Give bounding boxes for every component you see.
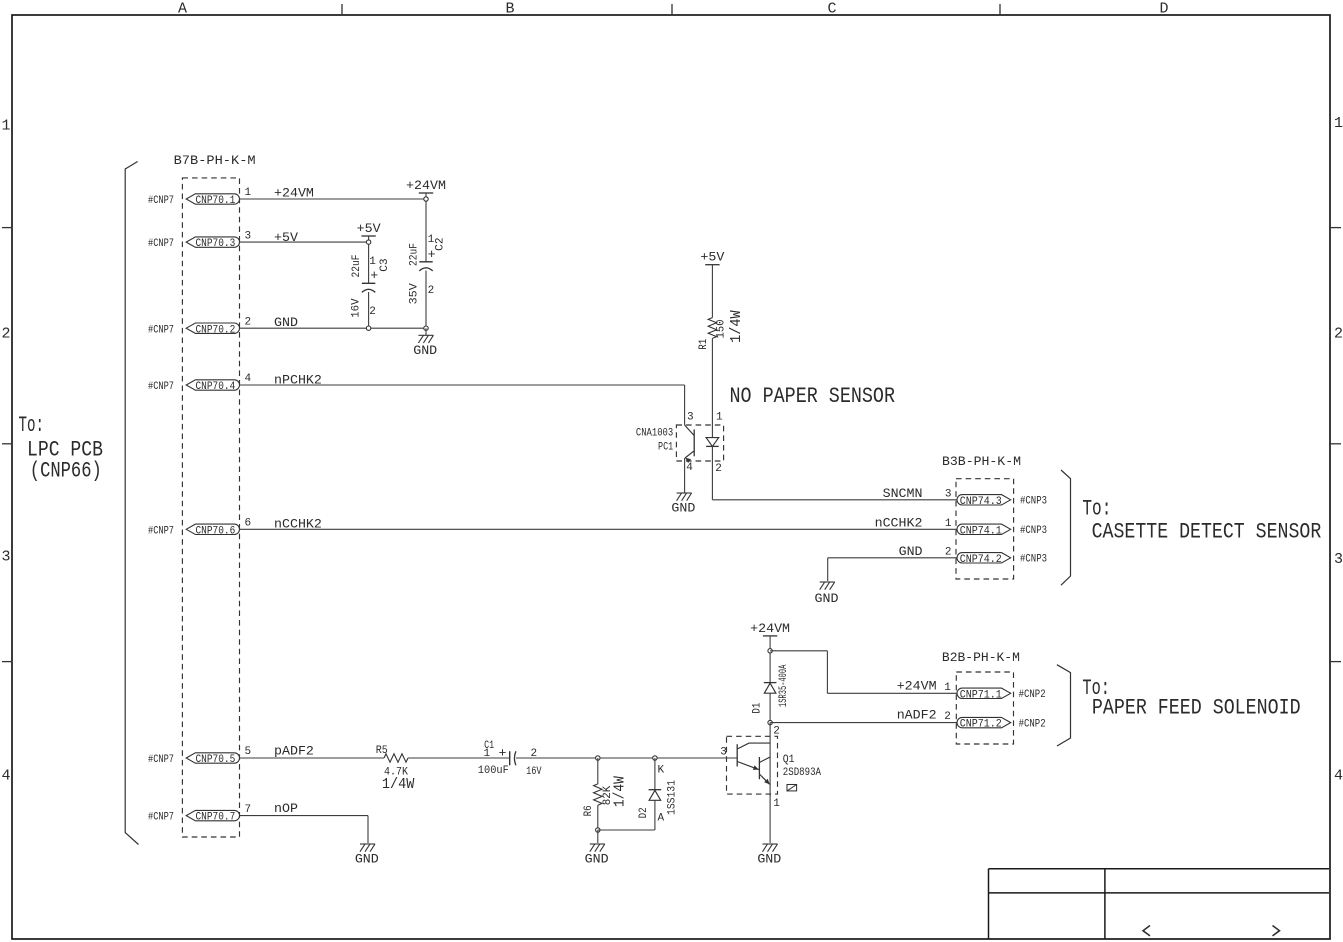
svg-text:4: 4 xyxy=(1334,768,1343,785)
svg-text:CNP70.3: CNP70.3 xyxy=(196,238,236,250)
svg-text:3: 3 xyxy=(1334,551,1343,568)
svg-text:B3B-PH-K-M: B3B-PH-K-M xyxy=(942,454,1021,469)
svg-text:C: C xyxy=(827,1,836,18)
svg-text:A: A xyxy=(178,1,187,18)
svg-text:1: 1 xyxy=(945,518,952,530)
svg-text:2: 2 xyxy=(2,326,11,343)
svg-text:6: 6 xyxy=(245,518,252,530)
svg-text:16V: 16V xyxy=(350,298,362,318)
svg-text:CNP70.6: CNP70.6 xyxy=(196,525,236,537)
svg-text:1SR35-400A: 1SR35-400A xyxy=(778,664,790,707)
svg-text:1SS131: 1SS131 xyxy=(666,780,678,815)
svg-text:CNP71.1: CNP71.1 xyxy=(960,689,1002,701)
svg-text:2: 2 xyxy=(245,316,252,328)
svg-text:R1: R1 xyxy=(698,338,710,349)
svg-text:B7B-PH-K-M: B7B-PH-K-M xyxy=(174,153,256,168)
svg-text:1: 1 xyxy=(369,256,376,268)
svg-text:22uF: 22uF xyxy=(409,243,421,266)
svg-text:#CNP7: #CNP7 xyxy=(148,381,174,393)
svg-text:+24VM: +24VM xyxy=(274,186,314,201)
svg-text:#CNP3: #CNP3 xyxy=(1020,525,1047,537)
svg-text:CNA1003: CNA1003 xyxy=(636,428,673,440)
svg-text:D: D xyxy=(1159,1,1168,18)
svg-text:2: 2 xyxy=(944,711,951,723)
svg-text:D1: D1 xyxy=(751,702,763,713)
svg-text:150: 150 xyxy=(715,319,727,338)
svg-text:(CNP66): (CNP66) xyxy=(30,459,102,484)
svg-text:3: 3 xyxy=(720,747,727,759)
svg-text:1/4W: 1/4W xyxy=(612,776,629,807)
svg-text:4: 4 xyxy=(245,373,252,385)
svg-text:nOP: nOP xyxy=(274,801,298,816)
svg-text:3: 3 xyxy=(945,488,952,500)
svg-text:#CNP7: #CNP7 xyxy=(148,812,174,824)
svg-text:To:: To: xyxy=(19,413,45,438)
svg-text:+: + xyxy=(428,247,436,262)
svg-text:2: 2 xyxy=(369,306,376,318)
svg-text:16V: 16V xyxy=(526,766,542,778)
svg-text:3: 3 xyxy=(2,549,11,566)
svg-text:CNP74.2: CNP74.2 xyxy=(960,554,1002,566)
svg-text:22uF: 22uF xyxy=(351,255,363,278)
svg-text:#CNP2: #CNP2 xyxy=(1019,689,1046,701)
svg-text:2: 2 xyxy=(945,546,952,558)
svg-text:CNP74.1: CNP74.1 xyxy=(960,525,1002,537)
svg-text:R6: R6 xyxy=(583,805,595,816)
svg-text:#CNP7: #CNP7 xyxy=(148,324,174,336)
svg-text:#CNP7: #CNP7 xyxy=(148,238,174,250)
svg-text:PC1: PC1 xyxy=(658,441,673,453)
svg-text:CNP70.1: CNP70.1 xyxy=(196,195,236,207)
svg-text:GND: GND xyxy=(899,544,923,559)
svg-text:1: 1 xyxy=(2,118,11,135)
svg-text:C3: C3 xyxy=(379,258,391,271)
svg-text:+5V: +5V xyxy=(700,250,724,265)
svg-text:GND: GND xyxy=(671,501,695,516)
svg-text:35V: 35V xyxy=(409,283,421,305)
svg-text:+: + xyxy=(499,746,507,761)
svg-text:PAPER FEED SOLENOID: PAPER FEED SOLENOID xyxy=(1092,696,1301,721)
svg-text:2: 2 xyxy=(1334,326,1343,343)
svg-text:CNP70.4: CNP70.4 xyxy=(196,381,236,393)
svg-text:C2: C2 xyxy=(434,237,446,250)
svg-text:2: 2 xyxy=(715,463,722,475)
svg-text:2: 2 xyxy=(428,285,435,297)
svg-text:1: 1 xyxy=(773,798,780,810)
svg-text:2SD893A: 2SD893A xyxy=(783,767,822,779)
svg-text:CNP70.7: CNP70.7 xyxy=(196,812,236,824)
svg-text:GND: GND xyxy=(757,852,781,867)
svg-text:100uF: 100uF xyxy=(478,765,509,777)
svg-text:CNP70.5: CNP70.5 xyxy=(196,754,236,766)
svg-text:#CNP3: #CNP3 xyxy=(1020,495,1047,507)
svg-text:+24VM: +24VM xyxy=(897,678,937,693)
svg-text:7: 7 xyxy=(245,804,252,816)
svg-text:4: 4 xyxy=(2,768,11,785)
svg-text:GND: GND xyxy=(413,343,437,358)
svg-text:3: 3 xyxy=(245,230,252,242)
svg-text:#CNP3: #CNP3 xyxy=(1020,553,1047,565)
svg-text:CNP70.2: CNP70.2 xyxy=(196,324,236,336)
svg-text:CNP74.3: CNP74.3 xyxy=(960,496,1002,508)
svg-text:+5V: +5V xyxy=(357,221,381,236)
svg-text:To:: To: xyxy=(1082,497,1111,522)
svg-text:+24VM: +24VM xyxy=(750,621,790,636)
svg-text:B2B-PH-K-M: B2B-PH-K-M xyxy=(942,650,1020,665)
svg-text:1: 1 xyxy=(484,748,491,760)
svg-text:+24VM: +24VM xyxy=(406,178,446,193)
svg-text:+: + xyxy=(370,268,378,283)
svg-text:#CNP2: #CNP2 xyxy=(1019,718,1046,730)
svg-text:GND: GND xyxy=(355,852,379,867)
svg-text:3: 3 xyxy=(687,412,694,424)
svg-text:#CNP7: #CNP7 xyxy=(148,525,174,537)
svg-text:nCCHK2: nCCHK2 xyxy=(875,515,923,530)
svg-text:+5V: +5V xyxy=(274,230,298,245)
svg-text:R5: R5 xyxy=(376,745,388,757)
svg-text:1/4W: 1/4W xyxy=(382,776,415,793)
svg-text:4: 4 xyxy=(686,462,693,474)
svg-text:1: 1 xyxy=(944,682,951,694)
svg-text:1/4W: 1/4W xyxy=(728,310,745,343)
svg-text:nADF2: nADF2 xyxy=(897,708,937,723)
svg-text:CASETTE DETECT SENSOR: CASETTE DETECT SENSOR xyxy=(1092,520,1322,545)
svg-text:D2: D2 xyxy=(638,807,650,818)
svg-text:A: A xyxy=(658,813,665,825)
svg-text:SNCMN: SNCMN xyxy=(883,486,923,501)
svg-text:GND: GND xyxy=(815,591,839,606)
svg-text:5: 5 xyxy=(245,746,252,758)
svg-text:Q1: Q1 xyxy=(783,754,795,766)
svg-text:K: K xyxy=(658,764,665,776)
svg-text:1: 1 xyxy=(245,187,252,199)
svg-text:1: 1 xyxy=(1334,115,1343,132)
svg-text:#CNP7: #CNP7 xyxy=(148,195,174,207)
svg-text:NO PAPER SENSOR: NO PAPER SENSOR xyxy=(730,384,896,409)
svg-text:GND: GND xyxy=(585,852,609,867)
svg-text:1: 1 xyxy=(716,412,723,424)
svg-text:pADF2: pADF2 xyxy=(274,744,314,759)
svg-text:B: B xyxy=(505,1,514,18)
svg-text:CNP71.2: CNP71.2 xyxy=(960,719,1002,731)
svg-text:#CNP7: #CNP7 xyxy=(148,754,174,766)
